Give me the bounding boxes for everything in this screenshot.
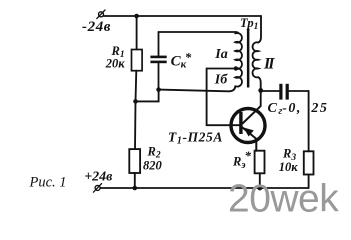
resistor R1 [132, 50, 143, 71]
transformer core [247, 29, 250, 88]
wire Re bottom lead [259, 173, 261, 188]
terminal -24v [97, 10, 105, 19]
svg-text:20wek: 20wek [228, 178, 339, 220]
node tap junction [234, 66, 238, 70]
svg-text:Ск*: Ск* [171, 49, 192, 70]
svg-text:Iа: Iа [214, 47, 227, 62]
wire winding II bottom to collector node [258, 77, 261, 90]
resistor Re [255, 151, 265, 174]
node Re bottom junction [257, 186, 262, 191]
transformer winding II [253, 42, 259, 77]
node divider junction [133, 99, 138, 104]
transistor T1 base bar [239, 112, 242, 134]
svg-text:Сг-0,25: Сг-0,25 [268, 101, 329, 117]
transistor T1 emitter arrow [244, 128, 254, 137]
transistor T1 emitter stroke [243, 128, 257, 151]
transformer Tr1 winding Ia+Ib [235, 33, 242, 87]
wire collector lead [260, 90, 262, 106]
svg-text:Рис. 1: Рис. 1 [29, 175, 67, 191]
transistor T1 circle [231, 109, 265, 143]
wire bottom rail [100, 187, 308, 189]
wire top rail to winding II top [258, 16, 261, 43]
wire top rail [104, 15, 261, 17]
wire divider to Ck bottom [136, 90, 159, 102]
resistor R3 [304, 151, 314, 174]
transistor T1 collector stroke [243, 106, 261, 123]
node collector junction [258, 88, 263, 93]
svg-text:Rэ*: Rэ* [232, 148, 252, 171]
wire R1 top lead [136, 16, 138, 50]
wire R2 bottom lead [134, 173, 136, 188]
node R2 bottom junction [133, 186, 138, 191]
svg-text:Iб: Iб [214, 72, 228, 87]
node Ck bottom junction [156, 87, 161, 92]
capacitor Cg [261, 84, 309, 100]
svg-text:20к: 20к [105, 56, 126, 70]
wire tap to base [207, 69, 240, 126]
node top junction [134, 14, 139, 19]
svg-text:II: II [263, 55, 275, 72]
wire R3 bottom lead [308, 175, 310, 189]
capacitor Ck [150, 32, 166, 90]
wire node B to winding Ib bottom [159, 87, 236, 92]
svg-text:-24в: -24в [82, 19, 111, 35]
svg-text:Тр1: Тр1 [240, 16, 258, 32]
resistor R2 [129, 149, 140, 173]
svg-text:Т1-П25А: Т1-П25А [168, 130, 223, 147]
wire R1 bottom lead [135, 71, 138, 102]
terminal +24v [93, 184, 101, 193]
svg-text:820: 820 [143, 158, 163, 172]
wire Cg to R3 [308, 91, 310, 151]
svg-text:10к: 10к [279, 160, 299, 174]
svg-text:+24в: +24в [84, 169, 113, 184]
wire R2 top lead [134, 101, 137, 149]
wire Ck top to winding Ia top [159, 32, 238, 33]
